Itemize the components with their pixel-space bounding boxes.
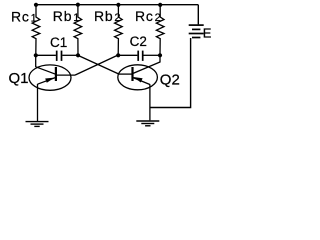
node: top of Rc2: [158, 3, 162, 7]
wire: C2 right node down to Q2 collector: [159, 55, 161, 62]
capacitor C2: [119, 51, 159, 61]
node: C1 right / cross wire to Q2 base: [76, 53, 80, 57]
transistor Q1: [29, 65, 75, 90]
resistor Rb1: [74, 5, 82, 56]
ground (Q1 emitter): [26, 122, 49, 127]
node: top of Rb2: [116, 3, 120, 7]
wire: battery - down and across to Q2 emitter: [150, 38, 191, 108]
svg-text:E: E: [203, 26, 212, 41]
wire: Q2 emitter down to ground: [149, 84, 151, 120]
svg-text:Rb2: Rb2: [94, 8, 121, 24]
svg-text:Q1: Q1: [9, 70, 29, 87]
svg-text:Q2: Q2: [160, 71, 180, 88]
svg-text:Rb1: Rb1: [53, 8, 80, 24]
wire: top supply rail: [36, 4, 198, 6]
node: Q2 collector / C2 right: [158, 53, 162, 57]
battery E: [189, 25, 204, 37]
resistor Rc2: [156, 5, 164, 56]
capacitor C1: [37, 51, 77, 61]
svg-text:C2: C2: [130, 34, 147, 49]
node: top of Rc1: [34, 3, 38, 7]
node: Q1 collector / C1 left: [34, 53, 38, 57]
wire: C1 left node down to Q1 collector: [35, 55, 37, 67]
svg-text:Rc1: Rc1: [11, 8, 38, 24]
resistor Rc1: [32, 5, 40, 56]
wire: cross coupling C1 right node to Q2 base: [78, 55, 119, 74]
transistor Q2: [118, 62, 160, 90]
svg-text:C1: C1: [50, 35, 67, 50]
node: top of Rb1: [76, 3, 80, 7]
wire: Q1 emitter down to ground: [37, 84, 39, 121]
resistor Rb2: [115, 5, 123, 56]
wire: cross coupling C2 left node to Q1 base: [75, 55, 117, 75]
ground (Q2 emitter): [136, 121, 159, 126]
svg-text:Rc2: Rc2: [135, 8, 162, 24]
wire: rail down to battery +: [197, 5, 199, 25]
node: C2 left / cross wire to Q1 base: [116, 53, 120, 57]
